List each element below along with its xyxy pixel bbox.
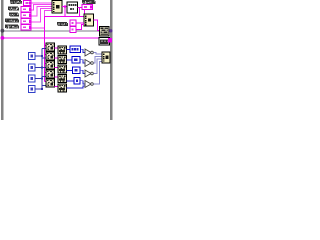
wire: B4 to C4 xyxy=(67,80,75,82)
subVI icon B3 xyxy=(58,65,67,73)
wire: long pink fan vertical A xyxy=(44,17,46,82)
string constant P1 xyxy=(70,20,76,26)
label L5 xyxy=(5,25,19,29)
wire: B3 to C3 xyxy=(67,69,73,71)
subVI icon A1 xyxy=(46,43,55,51)
wire: concat1 output xyxy=(62,6,67,8)
comparison node D1 xyxy=(85,49,93,56)
numeric constant C2 xyxy=(72,57,80,64)
wire: horizontal feed y16.5 to concat2 xyxy=(45,16,85,18)
wire: magenta string line y38.5 xyxy=(4,37,99,39)
subVI icon A4 xyxy=(46,70,55,78)
node: left tunnel dot 2 xyxy=(1,36,5,40)
wire: navy stub icon A1 xyxy=(42,48,46,50)
string constant S5 xyxy=(21,25,31,31)
concatenate strings U3 xyxy=(84,14,94,26)
subVI icon B5 xyxy=(58,84,67,92)
wire: B5 to comparison D4 lower input xyxy=(67,86,86,88)
concatenate strings U1 xyxy=(52,1,62,14)
wire: indicator down to concat2 xyxy=(84,10,86,15)
subVI U4 (scan icon) xyxy=(100,27,110,37)
node: navy junction dots xyxy=(41,55,43,90)
numeric terminal T1 xyxy=(29,53,35,60)
wire: U2 output to indicator xyxy=(78,7,83,9)
node: left tunnel dot 1 xyxy=(1,29,5,33)
right loop border xyxy=(110,0,113,120)
numeric constant C4 xyxy=(74,78,80,85)
wire: S1 to concat1 xyxy=(32,2,53,4)
wire: pink stubs to icon column xyxy=(45,46,47,82)
comparison node D2 xyxy=(85,60,93,67)
label L2 xyxy=(8,7,19,11)
wire: T3 to icon A4 xyxy=(35,77,46,79)
subVI icon A3 xyxy=(46,61,55,69)
wire: D2 to build node xyxy=(93,57,102,64)
subVI icon A2 xyxy=(46,52,55,60)
string constant P2 xyxy=(70,27,76,33)
wire: branch down from U2 output xyxy=(79,8,81,17)
subVI icon B2 xyxy=(58,56,67,64)
node: junction dot on output xyxy=(64,5,67,8)
wire: S4 to concat1 xyxy=(32,9,53,23)
numeric terminal T4 xyxy=(29,86,35,93)
subVI icon B1 xyxy=(58,46,67,54)
left loop border xyxy=(1,0,4,120)
wire: concat2 output to scan VI xyxy=(94,20,100,31)
wire: T4 to icon A5 xyxy=(35,86,46,89)
wire: S5 to concat1 xyxy=(32,11,53,29)
label L6 xyxy=(82,0,96,4)
wire: P1 to concat2 xyxy=(76,22,84,24)
wire: D3 to build node xyxy=(93,59,102,74)
wire: B1 to C1 xyxy=(67,49,71,51)
wire: P2 to concat2 xyxy=(76,25,84,30)
string constant S3 xyxy=(21,13,31,19)
wire: navy bus vertical xyxy=(41,49,43,89)
numeric constant C3 xyxy=(73,67,81,74)
background xyxy=(0,0,120,120)
string constant S1 xyxy=(24,1,32,6)
numeric terminal T2 xyxy=(29,64,35,71)
label L3 xyxy=(9,13,19,17)
wire: C1 to comparison D1 xyxy=(81,49,86,52)
wire: C4 to comparison D4 xyxy=(80,81,86,84)
wire: pink stubs between columns xyxy=(55,48,59,87)
subVI icon A5 xyxy=(46,79,55,87)
comparison node D3 xyxy=(85,70,93,77)
label L1 xyxy=(10,0,22,4)
string constant S2 xyxy=(21,7,31,13)
wire: D4 to build node xyxy=(93,62,102,85)
wire: B2 to C2 xyxy=(67,59,73,61)
node: right tunnel dot purple xyxy=(109,29,112,32)
numeric constant C1 xyxy=(70,46,81,53)
subVI U2 (match pattern) xyxy=(67,2,78,13)
wire: gray array line y31 xyxy=(4,30,100,32)
comparison node D4 xyxy=(85,81,93,88)
wire: branch down from junction xyxy=(64,7,66,17)
label L4 xyxy=(5,19,19,23)
wire: C2 to comparison D2 xyxy=(80,60,86,63)
build array U6 xyxy=(102,52,110,63)
wire: T2 to icon A3 xyxy=(35,66,46,68)
wire: U4 output to right tunnel xyxy=(109,30,111,32)
string indicator I1 xyxy=(82,5,93,10)
wire: S3 to concat1 xyxy=(32,7,53,17)
wire: T1 to icon A2 xyxy=(35,56,46,58)
label L7 (concat label) xyxy=(57,22,68,26)
subVI icon B4 xyxy=(58,75,67,83)
wire: D1 to build node xyxy=(93,53,102,55)
wire: S2 to concat1 xyxy=(32,5,53,11)
string constant S4 xyxy=(21,19,31,25)
numeric terminal T3 xyxy=(29,75,35,82)
wire: C3 to comparison D3 xyxy=(80,70,86,73)
node: right tunnel magenta xyxy=(108,38,112,43)
subVI U5 (format box) xyxy=(99,38,110,46)
